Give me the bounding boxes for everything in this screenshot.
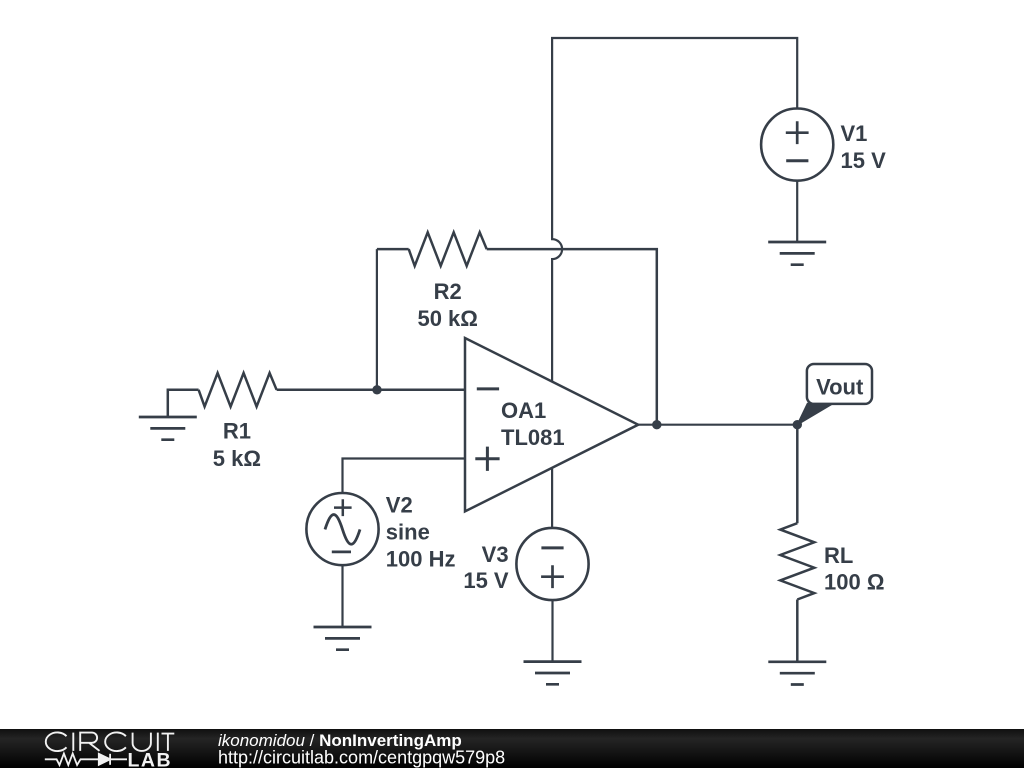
resistor R1 xyxy=(199,373,277,407)
wire R2 left leg down to inverting node xyxy=(376,249,378,390)
V3 plus polarity mark xyxy=(541,565,564,588)
V2 plus polarity mark xyxy=(334,499,352,516)
svg-text:V3: V3 xyxy=(482,542,509,567)
svg-text:V2: V2 xyxy=(386,493,413,518)
svg-text:LAB: LAB xyxy=(128,749,173,768)
svg-text:http://circuitlab.com/centgpqw: http://circuitlab.com/centgpqw579p8 xyxy=(218,748,505,768)
Vout flag box xyxy=(807,364,872,404)
V1 plus polarity mark xyxy=(786,121,809,144)
wire V2 bottom lead xyxy=(341,565,343,627)
op-amp non-inverting input plus symbol xyxy=(475,447,499,471)
op-amp OA1 triangle xyxy=(465,338,638,511)
svg-text:TL081: TL081 xyxy=(501,425,565,450)
voltage source V3 body xyxy=(516,528,588,600)
node A inverting input junction xyxy=(372,385,381,394)
ground below RL xyxy=(768,662,826,685)
svg-text:sine: sine xyxy=(386,520,430,545)
wire from Vout node down to RL xyxy=(796,425,799,524)
Vout flag pointer xyxy=(797,404,833,425)
svg-text:R2: R2 xyxy=(434,279,462,304)
voltage source V1 body xyxy=(761,109,833,181)
svg-text:R1: R1 xyxy=(223,418,251,443)
resistor R2 xyxy=(409,232,487,266)
wire R1 ground stub and left lead xyxy=(168,390,199,417)
svg-text:RL: RL xyxy=(824,543,853,568)
svg-text:Vout: Vout xyxy=(816,374,864,399)
CircuitLab logo resistor-diode strip + LAB xyxy=(45,754,127,766)
svg-text:15 V: 15 V xyxy=(463,568,509,593)
node B feedback/output junction xyxy=(652,420,661,429)
op-amp negative supply wire to V3 xyxy=(551,468,553,528)
wire R1 right lead to op-amp inverting input xyxy=(277,389,465,392)
resistor RL xyxy=(780,523,814,599)
wire RL bottom lead to ground xyxy=(796,600,799,662)
svg-text:5 kΩ: 5 kΩ xyxy=(213,446,261,471)
V1 minus polarity mark xyxy=(786,159,808,162)
ground at R1 input xyxy=(139,417,197,440)
V2 minus polarity mark xyxy=(332,551,351,554)
svg-text:OA1: OA1 xyxy=(501,398,546,423)
wire top rail from V1 top lead to supply column with hop over feedback xyxy=(552,38,797,382)
ground below V2 xyxy=(314,627,372,650)
svg-text:100 Ω: 100 Ω xyxy=(824,569,884,594)
svg-text:100 Hz: 100 Hz xyxy=(386,546,456,571)
svg-text:V1: V1 xyxy=(841,121,868,146)
svg-text:50 kΩ: 50 kΩ xyxy=(417,306,477,331)
sine symbol inside V2 xyxy=(325,515,360,545)
ground below V1 xyxy=(768,242,826,265)
ground below V3 xyxy=(524,662,582,685)
wire feedback from R2 right lead down to output node xyxy=(487,249,657,425)
wire R2 left lead xyxy=(377,248,409,251)
V3 minus polarity mark xyxy=(541,546,563,549)
wire non-inverting input from V2 xyxy=(343,459,466,494)
voltage source V2 body xyxy=(306,493,378,565)
op-amp inverting input minus symbol xyxy=(477,387,499,390)
output wire from op-amp to Vout tap xyxy=(638,424,797,426)
wire V3 bottom lead xyxy=(551,600,553,662)
svg-text:15 V: 15 V xyxy=(841,148,887,173)
CircuitLab logo CIRCUIT letters xyxy=(46,732,175,751)
wire V1 bottom lead xyxy=(796,181,798,242)
node C Vout tap junction xyxy=(793,420,802,429)
